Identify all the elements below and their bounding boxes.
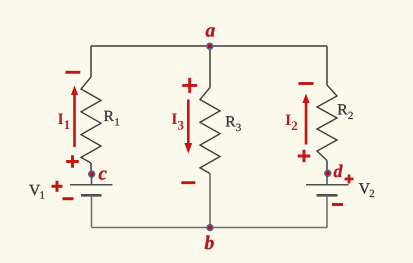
- svg-text:R: R: [225, 114, 236, 131]
- wire R1 to node c: [90, 163, 92, 171]
- minus sign V1: [63, 197, 74, 200]
- wire left branch top lead: [90, 46, 92, 77]
- wire right branch top lead: [326, 46, 328, 85]
- svg-text:2: 2: [291, 118, 298, 133]
- svg-text:I: I: [285, 112, 291, 129]
- battery V2 plate - (short): [317, 194, 338, 197]
- resistor R1: [81, 77, 101, 163]
- svg-text:c: c: [99, 163, 108, 184]
- svg-text:R: R: [337, 102, 348, 119]
- minus sign R2 top: [299, 82, 314, 85]
- plus sign R2 bottom: [298, 150, 311, 163]
- svg-text:b: b: [205, 233, 215, 254]
- wire bottom rail b: [92, 227, 328, 229]
- svg-text:2: 2: [348, 110, 354, 122]
- node b: [207, 225, 213, 231]
- svg-text:d: d: [334, 161, 344, 181]
- node c: [89, 171, 95, 177]
- wire top rail a: [91, 45, 327, 47]
- plus sign V1: [52, 181, 63, 192]
- wire battery V1 to bottom rail: [91, 195, 93, 227]
- node d: [325, 170, 331, 176]
- battery V2 plate + (long): [306, 184, 349, 186]
- battery V1 plate + (long): [70, 184, 113, 186]
- wire node d to battery V2: [326, 176, 328, 185]
- svg-text:1: 1: [114, 117, 120, 129]
- current arrow I2: [305, 102, 308, 145]
- svg-text:3: 3: [178, 117, 185, 132]
- node a: [207, 43, 213, 49]
- plus sign V2: [345, 175, 354, 184]
- svg-text:R: R: [104, 108, 115, 125]
- svg-text:1: 1: [64, 117, 71, 132]
- battery V1 plate - (short): [81, 194, 102, 197]
- wire middle branch top lead: [209, 46, 211, 88]
- plus sign R1 bottom: [66, 155, 79, 168]
- minus sign R1 top: [66, 71, 81, 74]
- wire node c to battery V1: [91, 176, 93, 185]
- current arrow I3: [187, 100, 190, 145]
- svg-text:a: a: [206, 21, 216, 42]
- wire R3 to node b: [209, 174, 211, 228]
- resistor R3: [200, 88, 220, 174]
- svg-text:I: I: [171, 111, 177, 128]
- svg-text:I: I: [58, 111, 64, 128]
- svg-text:1: 1: [40, 190, 46, 202]
- svg-text:3: 3: [236, 122, 242, 134]
- svg-text:2: 2: [369, 188, 375, 200]
- resistor R2: [317, 85, 337, 161]
- plus sign R3 top: [182, 78, 197, 93]
- minus sign R3 bottom: [181, 181, 195, 184]
- wire R2 to node d: [326, 161, 328, 171]
- wire battery V2 to bottom rail: [326, 195, 328, 227]
- minus sign V2: [332, 203, 343, 206]
- current arrow I1: [73, 94, 76, 147]
